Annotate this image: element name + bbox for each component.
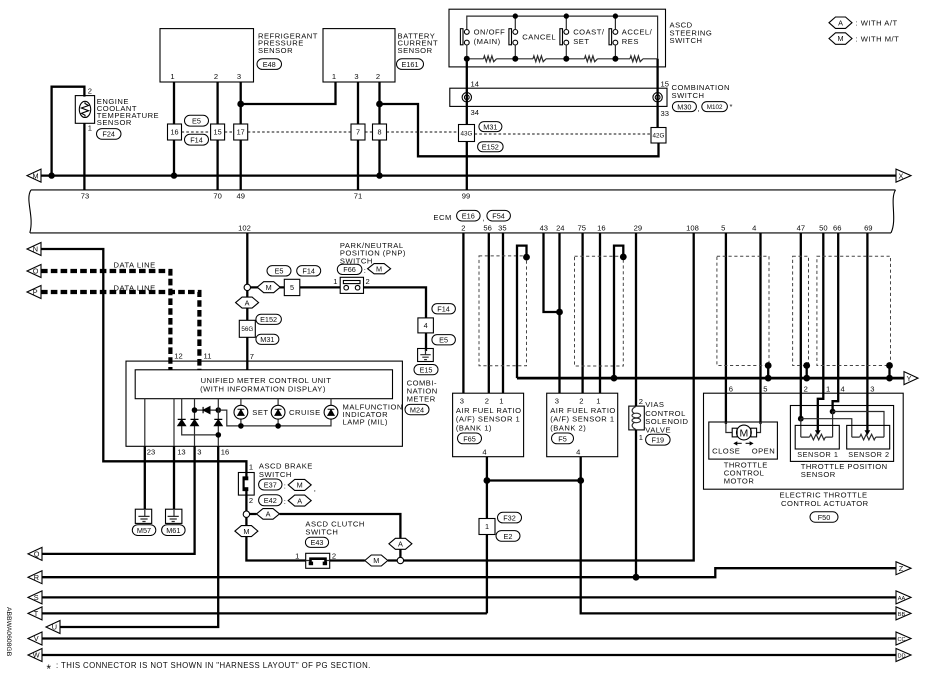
svg-text:,: , bbox=[314, 484, 317, 493]
svg-text::: : bbox=[284, 482, 287, 491]
contact symbol right bbox=[653, 93, 662, 102]
wire diode row to lamp common bbox=[218, 410, 331, 426]
TPS internal wiring bbox=[798, 416, 804, 422]
svg-text:,: , bbox=[483, 214, 486, 223]
arrow N bbox=[27, 243, 41, 256]
arrow Q bbox=[28, 547, 42, 560]
arrow X bbox=[896, 169, 911, 182]
svg-text:14: 14 bbox=[471, 79, 479, 88]
arrow BB bbox=[896, 607, 911, 620]
svg-text:16: 16 bbox=[170, 128, 178, 137]
svg-text:F50: F50 bbox=[818, 513, 831, 522]
svg-text:CONTROL ACTUATOR: CONTROL ACTUATOR bbox=[781, 499, 869, 508]
svg-text:7: 7 bbox=[356, 128, 360, 137]
svg-text:: WITH M/T: : WITH M/T bbox=[856, 34, 900, 43]
svg-text:E152: E152 bbox=[260, 315, 277, 324]
arrow V and wire to CC bbox=[28, 632, 42, 645]
connector F14 bbox=[297, 266, 321, 276]
hexagon A inline on vertical bbox=[389, 538, 412, 549]
svg-text:42G: 42G bbox=[653, 133, 665, 140]
svg-text:A: A bbox=[297, 496, 302, 505]
svg-text:E5: E5 bbox=[439, 336, 448, 345]
svg-text:E16: E16 bbox=[462, 211, 475, 220]
svg-text::: : bbox=[364, 266, 367, 275]
shield stub bbox=[888, 366, 890, 379]
svg-text:BB: BB bbox=[898, 612, 906, 618]
connector box 56G bbox=[239, 320, 255, 337]
svg-text:LAMP (MIL): LAMP (MIL) bbox=[343, 418, 388, 427]
svg-text:29: 29 bbox=[634, 224, 642, 233]
connector F24 bbox=[97, 129, 122, 140]
data line O (dashed) bbox=[41, 271, 170, 370]
data line P (dashed) bbox=[41, 292, 199, 370]
svg-text:56G: 56G bbox=[241, 326, 253, 333]
svg-text:VIAS: VIAS bbox=[645, 400, 664, 409]
arrow P bbox=[27, 286, 41, 299]
svg-text:F65: F65 bbox=[463, 434, 476, 443]
battery current sensor box E161 bbox=[323, 29, 395, 82]
UMCU outer box bbox=[126, 361, 402, 446]
connector M24 bbox=[405, 404, 429, 414]
connector F5 bbox=[552, 433, 574, 444]
connector F14 bbox=[185, 134, 209, 145]
svg-text:102: 102 bbox=[238, 224, 251, 233]
svg-text:49: 49 bbox=[236, 192, 244, 201]
switch COAST/SET bbox=[560, 29, 563, 45]
wire node to PNP switch bbox=[251, 287, 427, 318]
svg-text:SWITCH: SWITCH bbox=[672, 91, 705, 100]
ground E15 (combination meter) bbox=[418, 349, 434, 362]
wire ECT pin1 to ECM pin 73 bbox=[83, 123, 85, 190]
shield wire U2 to ground bus bbox=[614, 246, 623, 379]
ECM right wavy edge bbox=[891, 190, 896, 233]
wire refrigerant pin1 to ground line bbox=[173, 82, 175, 176]
svg-text:M: M bbox=[297, 481, 303, 490]
svg-text:O: O bbox=[33, 267, 39, 276]
resistor R1 bbox=[484, 56, 497, 62]
svg-text:M: M bbox=[266, 283, 272, 292]
svg-text:1: 1 bbox=[639, 433, 643, 442]
svg-text:16: 16 bbox=[221, 448, 229, 457]
svg-text:: THIS CONNECTOR IS NOT SHOWN: : THIS CONNECTOR IS NOT SHOWN IN "HARNES… bbox=[56, 661, 371, 670]
shield dashed box pin47 bbox=[793, 256, 809, 365]
wire pin3 to Q bbox=[42, 446, 195, 554]
svg-text:2: 2 bbox=[249, 496, 253, 505]
svg-text:71: 71 bbox=[354, 192, 362, 201]
connector F14 bbox=[432, 304, 456, 314]
svg-text:23: 23 bbox=[147, 448, 155, 457]
svg-text:E48: E48 bbox=[263, 60, 276, 69]
svg-text:ACCEL/: ACCEL/ bbox=[622, 27, 653, 36]
park/neutral position switch symbol bbox=[340, 277, 363, 293]
svg-text:1: 1 bbox=[249, 463, 253, 472]
connector E48 bbox=[257, 59, 282, 70]
electric throttle control actuator box F50 bbox=[704, 393, 904, 489]
brake switch box E37/E42 bbox=[238, 473, 254, 496]
svg-text:Q: Q bbox=[34, 550, 40, 559]
connector E42 bbox=[259, 495, 282, 506]
arrow M bbox=[27, 169, 41, 182]
svg-text:*: * bbox=[47, 664, 52, 676]
svg-text:1: 1 bbox=[295, 552, 299, 561]
connector F50 bbox=[810, 512, 838, 522]
hexagon M bbox=[288, 479, 311, 490]
UMCU inner unit bar bbox=[135, 370, 392, 399]
svg-text:1: 1 bbox=[485, 522, 489, 531]
connector M31 bbox=[479, 122, 502, 132]
wire refrigerant pin3 to ECM 49 bbox=[240, 82, 242, 190]
svg-text:Z: Z bbox=[899, 564, 904, 573]
svg-text:17: 17 bbox=[237, 128, 245, 137]
arrow DD bbox=[896, 649, 911, 662]
svg-text:M30: M30 bbox=[677, 102, 691, 111]
long ground wire M to X bbox=[41, 174, 896, 176]
diode D4 (points left) bbox=[203, 407, 210, 414]
svg-text:M: M bbox=[33, 171, 39, 180]
shield dashed box TPS bbox=[817, 256, 891, 365]
wire battery pin2 branch to 42G bbox=[380, 104, 659, 156]
wire clutch pin2 to node2 bbox=[330, 559, 398, 561]
combination switch band M30/M102 bbox=[450, 88, 667, 106]
svg-text:A: A bbox=[838, 18, 843, 27]
svg-text:73: 73 bbox=[81, 192, 89, 201]
arrow AA bbox=[896, 591, 911, 604]
diode D1 bbox=[178, 419, 186, 425]
wire node to hexagon A and 56G bbox=[246, 291, 248, 370]
svg-text:2: 2 bbox=[376, 72, 380, 81]
svg-text:8: 8 bbox=[377, 128, 381, 137]
svg-text:M31: M31 bbox=[483, 122, 497, 131]
svg-text:VALVE: VALVE bbox=[645, 425, 671, 434]
svg-text:ABBWA0608GB: ABBWA0608GB bbox=[5, 607, 12, 657]
svg-text:(BANK 2): (BANK 2) bbox=[550, 423, 586, 432]
svg-text:47: 47 bbox=[797, 224, 805, 233]
svg-text:CANCEL: CANCEL bbox=[522, 33, 556, 42]
clutch switch contact bbox=[311, 559, 326, 565]
svg-text:3: 3 bbox=[460, 396, 464, 405]
wire pin13 to ground M61 bbox=[173, 446, 175, 509]
arrow R and wire to Z bbox=[28, 571, 42, 584]
refrigerant pressure sensor box E48 bbox=[160, 29, 254, 82]
diode D2 bbox=[191, 419, 199, 425]
lamp SET bbox=[240, 399, 242, 426]
svg-text:2: 2 bbox=[639, 397, 643, 406]
svg-text:A: A bbox=[266, 510, 271, 519]
node circle below brake switch bbox=[243, 511, 249, 517]
svg-text:66: 66 bbox=[833, 224, 841, 233]
motor direction arrows bbox=[737, 442, 750, 444]
svg-text:N: N bbox=[33, 245, 38, 254]
connector box 17 bbox=[234, 124, 248, 140]
svg-text:M: M bbox=[373, 556, 379, 565]
ECM band outline bbox=[31, 189, 896, 191]
connector M102 bbox=[702, 102, 728, 112]
svg-text::: : bbox=[284, 497, 287, 506]
junction dot pin3/battery pin1 bbox=[237, 101, 244, 108]
connector E161 bbox=[397, 59, 424, 70]
diode D1 wire bbox=[182, 399, 219, 435]
connector box 7 bbox=[351, 124, 365, 140]
ECM left wavy edge bbox=[29, 190, 31, 233]
svg-text:M: M bbox=[243, 527, 249, 536]
svg-text:35: 35 bbox=[498, 224, 506, 233]
connector M31 bbox=[256, 334, 279, 344]
svg-text:2: 2 bbox=[88, 87, 92, 96]
resistor R2 bbox=[533, 56, 546, 62]
wire bank1 pin4 down bbox=[486, 457, 488, 614]
wire R to Z with jog bbox=[42, 568, 896, 577]
svg-text:4: 4 bbox=[841, 385, 845, 394]
svg-text:OPEN: OPEN bbox=[752, 447, 776, 456]
junction dot bbox=[171, 172, 177, 178]
shield stub bbox=[806, 366, 808, 379]
shield dashed box throttle motor bbox=[717, 256, 769, 365]
svg-text:F66: F66 bbox=[343, 265, 356, 274]
connector box 16 bbox=[168, 124, 182, 140]
wire ECT pin2 to ground line M bbox=[52, 87, 85, 176]
svg-text:: WITH A/T: : WITH A/T bbox=[856, 19, 898, 28]
svg-text:F14: F14 bbox=[302, 267, 315, 276]
svg-text:U: U bbox=[52, 623, 57, 632]
node open circle bbox=[244, 284, 250, 290]
wire ECM 29 to valve bbox=[635, 233, 637, 406]
svg-text:M24: M24 bbox=[410, 405, 424, 414]
svg-text:3: 3 bbox=[555, 396, 559, 405]
svg-text:1: 1 bbox=[826, 385, 830, 394]
diode D3 bbox=[214, 419, 222, 425]
wire bank2 pin4 down to BB bbox=[581, 457, 896, 614]
svg-text:METER: METER bbox=[407, 394, 436, 403]
svg-text:2: 2 bbox=[461, 224, 465, 233]
potentiometer sensor 2 bbox=[852, 436, 884, 438]
svg-text:3: 3 bbox=[197, 448, 201, 457]
hexagon M bbox=[368, 264, 391, 274]
arrow Z bbox=[896, 562, 911, 575]
svg-text:DATA LINE: DATA LINE bbox=[114, 261, 156, 270]
svg-text:1: 1 bbox=[88, 124, 92, 133]
svg-text:E37: E37 bbox=[264, 480, 277, 489]
hexagon A bbox=[288, 495, 311, 506]
connector E43 bbox=[305, 537, 328, 547]
arrow T and wire bbox=[28, 607, 42, 620]
svg-text:SENSOR: SENSOR bbox=[258, 46, 293, 55]
svg-text:F5: F5 bbox=[558, 434, 567, 443]
wire ECM 43 jog to bank2 pin3 bbox=[544, 233, 560, 312]
svg-text:15: 15 bbox=[661, 79, 669, 88]
svg-text:M: M bbox=[740, 427, 749, 439]
svg-text:7: 7 bbox=[250, 352, 254, 361]
wire node to A hexagon line bbox=[250, 514, 401, 538]
sensor 1 box bbox=[795, 425, 839, 449]
svg-text:70: 70 bbox=[213, 192, 221, 201]
connector E5 bbox=[432, 335, 456, 345]
svg-text:E15: E15 bbox=[420, 366, 433, 375]
dashed link 43G-42G bbox=[475, 133, 653, 135]
contact symbol left bbox=[462, 93, 471, 102]
switch CANCEL bbox=[509, 29, 512, 45]
VIAS valve body F19 bbox=[629, 406, 645, 430]
hexagon M bbox=[257, 282, 280, 293]
air fuel ratio sensor 1 bank 1 box F65 bbox=[453, 393, 524, 457]
svg-text:69: 69 bbox=[864, 224, 872, 233]
wire ECM 5 to motor bbox=[725, 233, 727, 424]
svg-text:SENSOR: SENSOR bbox=[801, 470, 836, 479]
svg-text:13: 13 bbox=[177, 448, 185, 457]
legend hexagon A bbox=[829, 17, 852, 28]
svg-text:4: 4 bbox=[424, 321, 428, 330]
svg-text:CLOSE: CLOSE bbox=[712, 447, 740, 456]
horizontal wire with diode D4 bbox=[195, 409, 219, 411]
svg-text:33: 33 bbox=[661, 109, 669, 118]
arrow W and wire to DD bbox=[28, 649, 42, 662]
motor M bbox=[737, 425, 752, 440]
lamp MIL bbox=[330, 399, 332, 406]
svg-text:E5: E5 bbox=[192, 117, 201, 126]
svg-text:M: M bbox=[376, 264, 382, 273]
dashed connector link line bbox=[182, 131, 459, 133]
wire ECM 69 bbox=[866, 233, 868, 431]
wire ECM 66 bbox=[833, 233, 839, 412]
ground M61 bbox=[166, 509, 182, 523]
svg-text:2: 2 bbox=[579, 396, 583, 405]
svg-text:43: 43 bbox=[540, 224, 548, 233]
svg-text:RES: RES bbox=[622, 37, 639, 46]
svg-text:2: 2 bbox=[366, 277, 370, 286]
wire link bank1 pin4 to bank2 pin4 bbox=[487, 479, 581, 481]
wire ECM 50 bbox=[818, 233, 824, 431]
svg-text:A: A bbox=[398, 540, 403, 549]
svg-text:M57: M57 bbox=[137, 526, 151, 535]
svg-text:24: 24 bbox=[556, 224, 564, 233]
wire pin23 to ground M57 bbox=[144, 446, 146, 509]
connector box 5 bbox=[284, 279, 300, 295]
svg-text:DD: DD bbox=[898, 653, 906, 659]
svg-text:1: 1 bbox=[333, 277, 337, 286]
svg-text:E42: E42 bbox=[264, 496, 277, 505]
wire node2 to ECM 108 bbox=[404, 233, 694, 561]
wire ECM 47 bbox=[800, 233, 802, 419]
wire pin16 to U bbox=[60, 446, 218, 627]
throttle control motor box bbox=[709, 422, 778, 459]
svg-text:F32: F32 bbox=[503, 514, 516, 523]
connector E152 bbox=[478, 142, 504, 152]
svg-text:108: 108 bbox=[686, 224, 699, 233]
svg-text:15: 15 bbox=[214, 128, 222, 137]
svg-text:2: 2 bbox=[804, 385, 808, 394]
connector box 42G bbox=[651, 128, 666, 144]
arrow Y bbox=[904, 372, 918, 385]
shield wire U1 to ground bus bbox=[517, 246, 527, 379]
wire battery pin1 to node bbox=[241, 82, 336, 104]
svg-text:(A/F) SENSOR 1: (A/F) SENSOR 1 bbox=[550, 415, 614, 424]
svg-text:F24: F24 bbox=[102, 129, 115, 138]
brake switch contact bbox=[245, 473, 247, 480]
svg-text:4: 4 bbox=[752, 224, 756, 233]
connector E5 bbox=[185, 115, 209, 126]
wire pin15 down to 42G bbox=[656, 59, 658, 128]
ASCD steering switch outer box bbox=[449, 9, 666, 67]
shield dashed box bank2 bbox=[575, 256, 624, 366]
potentiometer sensor 1 bbox=[801, 436, 833, 438]
svg-text:E5: E5 bbox=[275, 267, 284, 276]
svg-text:T: T bbox=[34, 609, 39, 618]
svg-text:1: 1 bbox=[332, 72, 336, 81]
svg-text:12: 12 bbox=[174, 352, 182, 361]
svg-text:SENSOR: SENSOR bbox=[97, 118, 132, 127]
connector M30 bbox=[672, 102, 696, 112]
junction dot on M line at x51.6 bbox=[48, 172, 54, 178]
arrow S and wire to AA bbox=[28, 591, 42, 604]
arrow O bbox=[27, 265, 41, 278]
svg-text:AIR FUEL RATIO: AIR FUEL RATIO bbox=[550, 406, 616, 415]
svg-text:43G: 43G bbox=[461, 130, 473, 137]
svg-text:P: P bbox=[33, 288, 38, 297]
wire battery pin3 to ECM 71 bbox=[357, 82, 359, 190]
svg-text:99: 99 bbox=[462, 192, 470, 201]
svg-text:SWITCH: SWITCH bbox=[259, 470, 292, 479]
svg-text:SENSOR: SENSOR bbox=[398, 46, 433, 55]
hexagon M inline bbox=[235, 526, 258, 537]
connector F32 bbox=[498, 512, 522, 523]
ground M57 bbox=[135, 509, 151, 523]
lamp CRUISE bbox=[277, 399, 279, 426]
shield dashed box bank1 bbox=[479, 256, 527, 366]
wire ECM 2 to bank1 pin3 bbox=[462, 233, 464, 393]
connector box 1 (F32/E2) bbox=[479, 519, 495, 535]
motor wires into brushes bbox=[726, 422, 761, 433]
svg-text:(MAIN): (MAIN) bbox=[474, 37, 501, 46]
connector F66 bbox=[337, 264, 362, 274]
svg-text:SET: SET bbox=[252, 408, 268, 417]
svg-text:1: 1 bbox=[596, 396, 600, 405]
svg-text:5: 5 bbox=[290, 283, 294, 292]
hexagon A bbox=[236, 297, 259, 308]
connector box 43G bbox=[459, 125, 475, 142]
wire pin 16 (diode D3) bbox=[217, 399, 219, 447]
wire refrigerant pin2 to ECM 70 bbox=[216, 82, 218, 190]
svg-text:4: 4 bbox=[576, 447, 580, 456]
svg-text:16: 16 bbox=[597, 224, 605, 233]
svg-text:50: 50 bbox=[819, 224, 827, 233]
svg-text:ON/OFF: ON/OFF bbox=[474, 27, 506, 36]
connector box 8 bbox=[373, 124, 387, 140]
wire ECM 4 to motor bbox=[759, 233, 761, 424]
connector E152 bbox=[256, 314, 282, 324]
svg-text:SENSOR 1: SENSOR 1 bbox=[797, 450, 838, 459]
svg-text:E2: E2 bbox=[504, 532, 513, 541]
arrow CC bbox=[896, 632, 911, 645]
hexagon A inline bbox=[257, 509, 280, 520]
arrow U bbox=[46, 621, 60, 634]
svg-text:F14: F14 bbox=[190, 136, 203, 145]
svg-text:V: V bbox=[34, 634, 39, 643]
svg-text:M61: M61 bbox=[166, 526, 180, 535]
svg-text:Y: Y bbox=[907, 374, 912, 383]
air fuel ratio sensor 1 bank 2 box F5 bbox=[547, 393, 618, 457]
svg-text:1: 1 bbox=[170, 72, 174, 81]
legend hexagon M bbox=[829, 33, 852, 45]
svg-text:E161: E161 bbox=[401, 60, 418, 69]
svg-text:,: , bbox=[698, 104, 701, 113]
connector F19 bbox=[646, 434, 671, 445]
wire node down through M hexagon to clutch switch bbox=[246, 517, 305, 560]
wire pin 13 bbox=[173, 399, 175, 447]
svg-text:11: 11 bbox=[204, 352, 212, 361]
node circle 2 bbox=[397, 557, 403, 563]
wire ECM 75 to bank2 pin2 bbox=[581, 233, 583, 393]
engine coolant temperature sensor body F24 bbox=[75, 96, 94, 124]
svg-text:SENSOR 2: SENSOR 2 bbox=[848, 450, 889, 459]
